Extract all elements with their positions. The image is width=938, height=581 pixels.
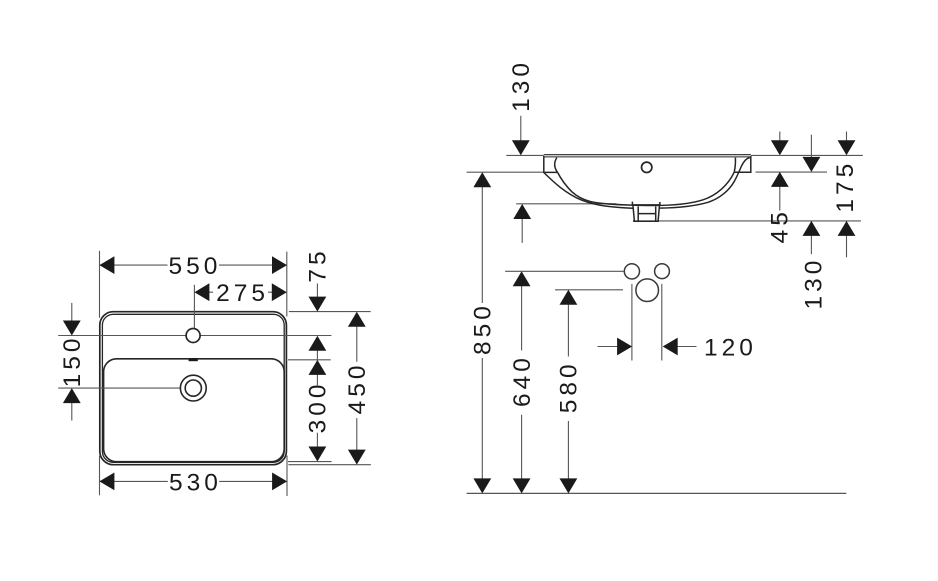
dim 150 xyxy=(59,303,86,421)
extension line 275 centre xyxy=(193,285,195,328)
dim 550 xyxy=(99,253,287,280)
basin top edge xyxy=(544,155,751,157)
extension line bowl bottom right xyxy=(288,461,332,463)
shell outer profile right xyxy=(660,158,750,209)
extension line 120 right xyxy=(661,284,663,361)
drain fitting xyxy=(632,202,660,222)
extension line 530 right xyxy=(286,456,288,496)
dim 300 xyxy=(305,360,332,462)
floor line xyxy=(467,492,847,494)
extension line 530 left xyxy=(99,456,101,496)
svg-text:640: 640 xyxy=(509,354,536,407)
extension line outer bottom right xyxy=(288,464,371,466)
overflow tick xyxy=(189,358,198,361)
waste point xyxy=(636,279,659,302)
dim 640 xyxy=(509,271,536,493)
faucet hole front xyxy=(642,162,652,172)
dim 120 xyxy=(598,335,757,362)
supply point left xyxy=(624,264,639,279)
extension line bowl top right xyxy=(288,359,331,361)
dim 450 xyxy=(344,312,371,465)
extension line top edge right xyxy=(289,311,371,313)
basin left rim end xyxy=(544,156,558,172)
svg-text:45: 45 xyxy=(767,208,794,243)
waste height reference line xyxy=(555,289,623,291)
dim 130 above rim xyxy=(508,59,535,155)
dim 275 xyxy=(194,280,286,307)
svg-text:75: 75 xyxy=(305,247,332,282)
svg-text:120: 120 xyxy=(704,335,757,362)
extension line 550/275 right xyxy=(286,252,288,317)
rim underside reference line left xyxy=(467,171,544,173)
svg-text:175: 175 xyxy=(832,160,859,213)
dim 75 xyxy=(305,247,332,359)
dim 130 right xyxy=(800,135,827,310)
dim 530 xyxy=(99,469,287,496)
svg-text:150: 150 xyxy=(59,334,86,387)
dim 580 xyxy=(556,290,583,494)
rim underside reference line right xyxy=(756,171,828,173)
bowl underside pointer xyxy=(513,204,531,243)
basin outer rim outline xyxy=(100,312,287,465)
supply height reference line xyxy=(505,270,624,272)
basin right rim end xyxy=(734,156,751,172)
drain outlet reference line xyxy=(633,220,861,222)
basin rim inner edge xyxy=(102,314,284,462)
svg-text:580: 580 xyxy=(556,360,583,413)
drain inner circle xyxy=(185,380,201,396)
dim 850 xyxy=(470,172,497,493)
drain centre line xyxy=(58,387,180,389)
svg-text:300: 300 xyxy=(305,380,332,433)
dim 45 rim thickness xyxy=(767,132,794,244)
shell outer profile left xyxy=(544,173,633,209)
bowl inner profile xyxy=(558,172,735,205)
svg-text:130: 130 xyxy=(508,59,535,112)
svg-text:530: 530 xyxy=(169,469,222,496)
svg-text:130: 130 xyxy=(800,257,827,310)
extension line 550 left xyxy=(99,251,101,318)
dim 175 xyxy=(832,132,859,258)
bowl bottom reference line xyxy=(516,203,616,205)
faucet hole centre line xyxy=(58,335,331,337)
bowl outline (top view) xyxy=(104,359,285,462)
faucet hole xyxy=(186,329,200,343)
supply point right xyxy=(655,264,670,279)
extension line 120 left xyxy=(631,284,633,361)
svg-text:450: 450 xyxy=(344,361,371,414)
svg-text:850: 850 xyxy=(470,302,497,355)
svg-text:550: 550 xyxy=(169,253,222,280)
drain outer circle xyxy=(180,375,206,401)
rim top reference line xyxy=(506,154,863,156)
svg-text:275: 275 xyxy=(216,280,269,307)
